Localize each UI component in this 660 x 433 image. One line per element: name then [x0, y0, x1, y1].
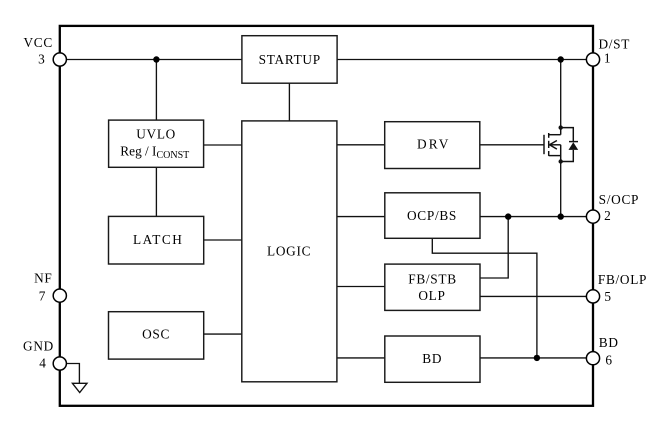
svg-text:VCC: VCC — [23, 35, 52, 50]
svg-text:2: 2 — [604, 208, 611, 223]
svg-text:LATCH: LATCH — [133, 232, 183, 247]
svg-text:D/ST: D/ST — [598, 37, 630, 52]
svg-text:OSC: OSC — [142, 326, 170, 341]
svg-text:STARTUP: STARTUP — [259, 52, 321, 67]
svg-text:LOGIC: LOGIC — [267, 244, 311, 259]
svg-text:NF: NF — [34, 271, 52, 286]
svg-text:7: 7 — [39, 288, 46, 303]
svg-text:OCP/BS: OCP/BS — [407, 208, 457, 223]
svg-text:UVLO: UVLO — [136, 127, 176, 142]
svg-text:OLP: OLP — [418, 288, 445, 303]
svg-text:S/OCP: S/OCP — [599, 192, 639, 207]
svg-text:FB/OLP: FB/OLP — [598, 272, 647, 287]
svg-text:6: 6 — [605, 353, 612, 368]
svg-text:5: 5 — [604, 289, 611, 304]
svg-text:FB/STB: FB/STB — [408, 271, 457, 286]
svg-text:BD: BD — [422, 351, 442, 366]
svg-text:1: 1 — [604, 51, 611, 66]
svg-text:GND: GND — [23, 339, 54, 354]
svg-text:BD: BD — [599, 335, 619, 350]
svg-text:DRV: DRV — [417, 137, 451, 152]
svg-text:3: 3 — [38, 51, 45, 66]
svg-text:4: 4 — [39, 355, 46, 370]
